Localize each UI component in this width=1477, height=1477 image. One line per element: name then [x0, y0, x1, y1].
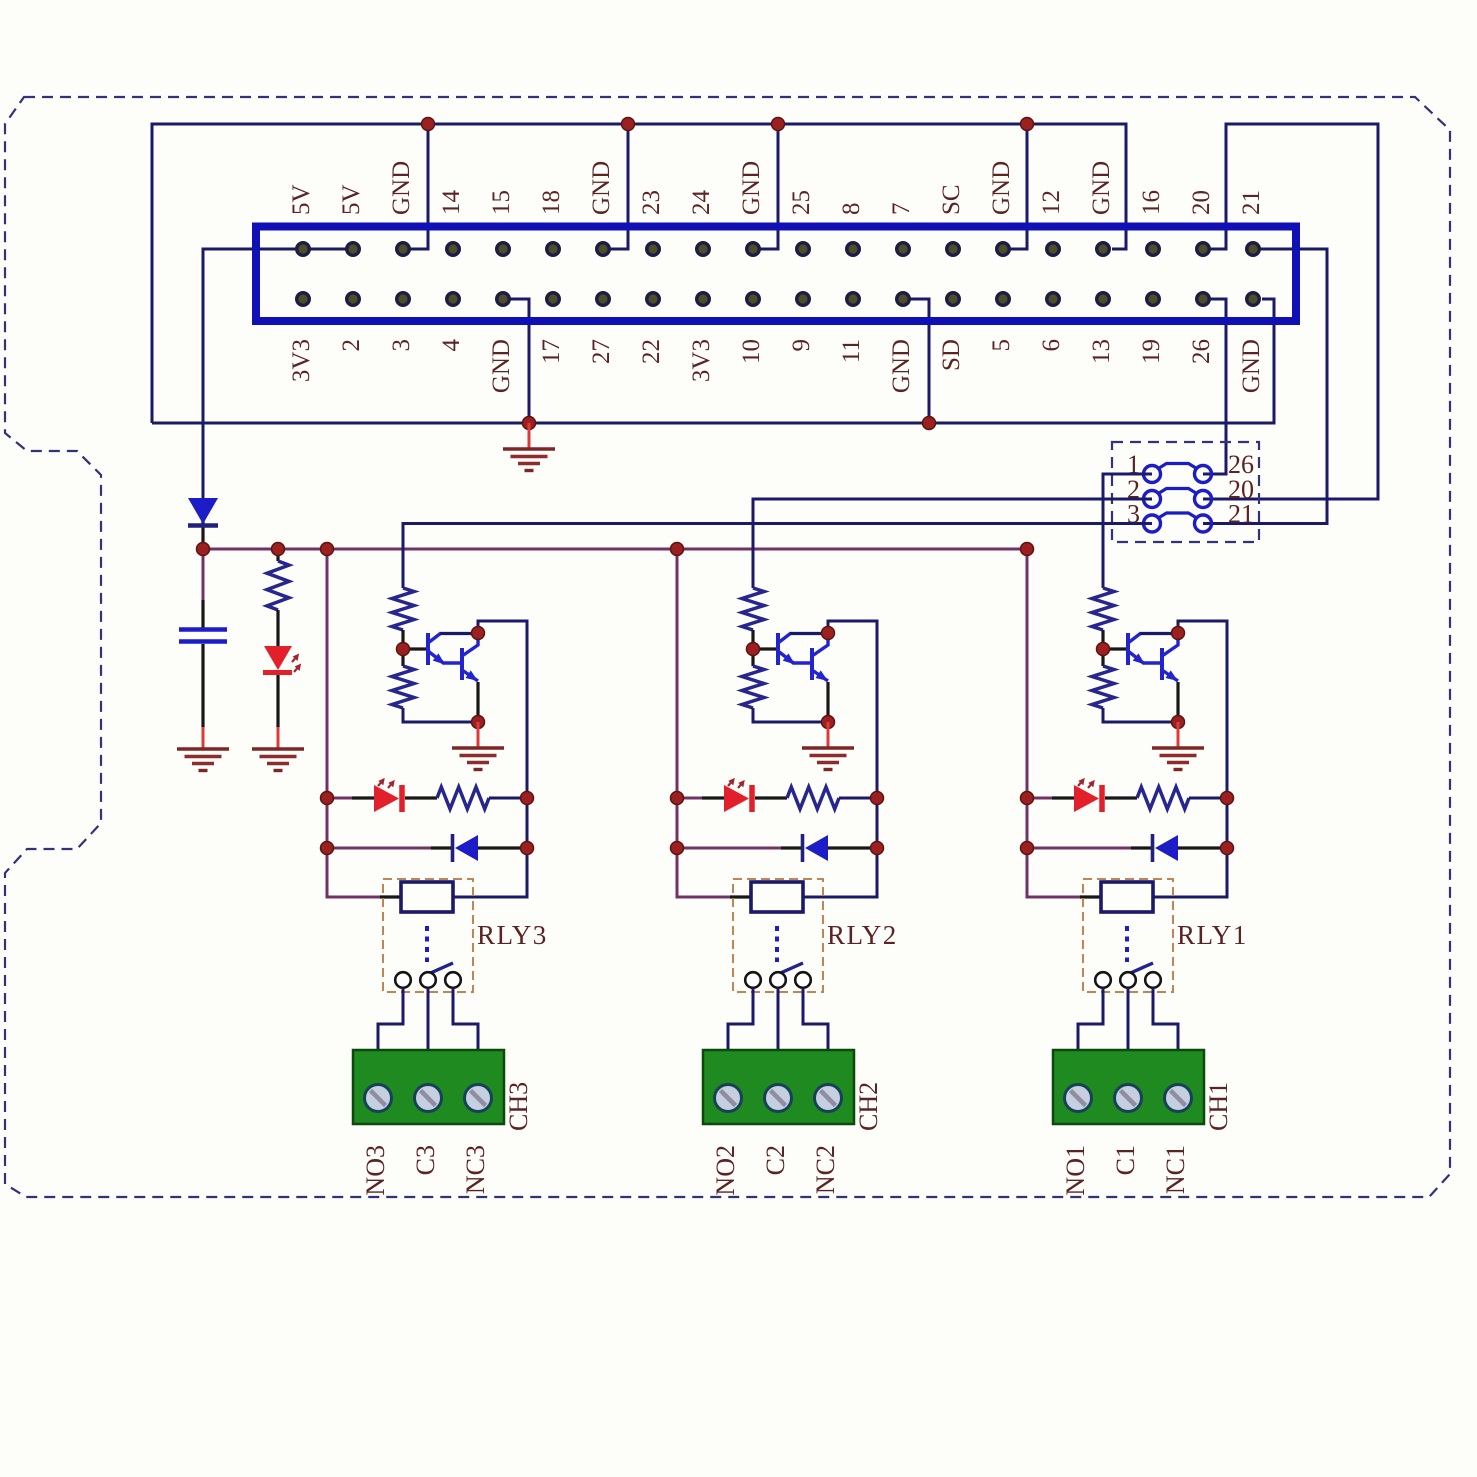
label NC1	[1161, 1145, 1190, 1194]
wire LED row left	[677, 797, 724, 800]
relay actuator link	[425, 926, 429, 962]
ground	[177, 727, 229, 771]
junction power bus	[197, 543, 1034, 556]
svg-text:NO1: NO1	[1061, 1145, 1090, 1196]
relay switch lever	[1126, 963, 1153, 975]
svg-text:SD: SD	[938, 339, 965, 371]
transistor Q3 darlington	[428, 633, 478, 681]
wire GND pin3 jog	[403, 124, 428, 249]
relay contacts	[395, 972, 461, 988]
wire diode row rail	[1226, 798, 1229, 848]
resistor R3c led	[437, 787, 489, 809]
svg-text:19: 19	[1138, 339, 1165, 364]
resistor R1	[267, 549, 289, 646]
wire coil right lead	[803, 848, 877, 897]
wire diode row left	[677, 847, 802, 850]
wire contact NO	[378, 988, 403, 1051]
relay RLY1 box	[1083, 879, 1173, 992]
diode D3F flyback	[453, 834, 528, 862]
wire collector loop	[828, 621, 877, 798]
svg-text:5V: 5V	[288, 184, 315, 215]
wire purple rail	[677, 549, 730, 897]
label RLY2	[827, 920, 898, 950]
svg-text:27: 27	[588, 339, 615, 364]
junction collector	[822, 627, 835, 640]
svg-text:6: 6	[1038, 339, 1065, 352]
label NO2	[711, 1145, 740, 1196]
wire contact NO	[728, 988, 753, 1051]
header pins top row	[297, 243, 1260, 256]
svg-text:C1: C1	[1111, 1145, 1140, 1175]
junction diode row	[1021, 842, 1234, 855]
wire LED row left	[1027, 797, 1074, 800]
wire GND pin5 bottom jog	[503, 299, 529, 423]
svg-text:21: 21	[1238, 190, 1265, 215]
svg-text:GND: GND	[888, 339, 915, 393]
wire contact NC	[1153, 988, 1178, 1051]
label RLY1	[1177, 920, 1248, 950]
resistor R1b pulldown	[1092, 649, 1114, 708]
junction collector	[472, 627, 485, 640]
header pins bottom row	[297, 293, 1260, 306]
svg-text:12: 12	[1038, 190, 1065, 215]
junction collector	[1172, 627, 1185, 640]
resistor R2c led	[787, 787, 839, 809]
wire pulldown to emitter	[1103, 708, 1178, 722]
resistor R1a base	[1092, 588, 1114, 649]
svg-text:18: 18	[538, 190, 565, 215]
resistor R3b pulldown	[392, 649, 414, 708]
svg-text:RLY1: RLY1	[1177, 920, 1248, 950]
wire collector loop	[478, 621, 527, 798]
wire GND pin15 jog	[1003, 124, 1027, 249]
junction diode row	[321, 842, 534, 855]
junction bottom bus	[523, 417, 936, 430]
resistor R2b pulldown	[742, 649, 764, 708]
wire diode row rail	[876, 798, 879, 848]
wire contact C	[777, 988, 780, 1051]
wire GND pin10 jog	[753, 124, 778, 249]
svg-text:23: 23	[638, 190, 665, 215]
pin labels bottom row	[288, 339, 1265, 394]
svg-text:13: 13	[1088, 339, 1115, 364]
ground	[1152, 722, 1204, 770]
svg-text:GND: GND	[1088, 161, 1115, 215]
svg-text:CH1: CH1	[1204, 1082, 1233, 1131]
svg-text:3V3: 3V3	[288, 339, 315, 382]
wire GND pin13 bottom jog	[903, 299, 929, 423]
jumper row 3	[1144, 513, 1212, 532]
relay RLY2 box	[733, 879, 823, 992]
resistor R1c led	[1137, 787, 1189, 809]
wire purple rail	[327, 549, 380, 897]
junction led row	[321, 792, 534, 805]
ground	[503, 423, 555, 471]
svg-text:16: 16	[1138, 190, 1165, 215]
ground	[802, 722, 854, 770]
svg-text:21: 21	[1228, 500, 1254, 529]
transistor Q2 darlington	[778, 633, 828, 681]
junction emitter	[822, 716, 835, 729]
wire contact C	[1127, 988, 1130, 1051]
wire coil left lead	[380, 895, 401, 898]
junction base node	[747, 643, 760, 656]
relay RLY3 coil	[401, 882, 453, 912]
wire purple rail	[1027, 549, 1080, 897]
svg-text:11: 11	[838, 339, 865, 363]
wire base node	[1103, 647, 1127, 650]
wire jumper row2 to RLY2 base	[753, 499, 1152, 588]
LED D3L status	[374, 778, 437, 812]
resistor R3a base	[392, 588, 414, 649]
wire emitter to ground node	[1176, 682, 1179, 722]
svg-text:NC1: NC1	[1161, 1145, 1190, 1194]
wire contact NO	[1078, 988, 1103, 1051]
jumper pin numbers right	[1228, 450, 1254, 529]
label CH2	[854, 1082, 883, 1131]
resistor R2a base	[742, 588, 764, 649]
wire contact NC	[453, 988, 478, 1051]
diode D2F flyback	[803, 834, 878, 862]
svg-text:GND: GND	[988, 161, 1015, 215]
svg-text:5: 5	[988, 339, 1015, 352]
wire GND top bus	[152, 124, 1126, 423]
wire LED row left	[327, 797, 374, 800]
wire base node	[753, 647, 777, 650]
svg-text:CH2: CH2	[854, 1082, 883, 1131]
svg-text:GND: GND	[738, 161, 765, 215]
wire pin26 to jumper	[1203, 299, 1226, 474]
wire pin21 to jumper	[1203, 249, 1327, 524]
relay RLY3 box	[383, 879, 473, 992]
label CH3	[504, 1082, 533, 1131]
wire diode row left	[327, 847, 452, 850]
svg-text:9: 9	[788, 339, 815, 352]
junction diode row	[671, 842, 884, 855]
svg-text:CH3: CH3	[504, 1082, 533, 1131]
label C3	[411, 1145, 440, 1175]
svg-text:8: 8	[838, 203, 865, 216]
jumper pin numbers left	[1127, 450, 1140, 529]
svg-text:GND: GND	[488, 339, 515, 393]
wire LED row right	[1189, 797, 1227, 800]
svg-text:RLY3: RLY3	[477, 920, 548, 950]
junction led row	[671, 792, 884, 805]
LED D2 power indicator	[263, 646, 301, 727]
terminal block CH3	[353, 1050, 504, 1124]
wire contact C	[427, 988, 430, 1051]
label C1	[1111, 1145, 1140, 1175]
jumper row 1	[1144, 464, 1212, 483]
svg-text:3V3: 3V3	[688, 339, 715, 382]
wire emitter to ground node	[826, 682, 829, 722]
wire coil right lead	[1153, 848, 1227, 897]
wire jumper row3 to RLY3 base	[403, 524, 1152, 589]
wire coil left lead	[730, 895, 751, 898]
ground	[452, 722, 504, 770]
svg-text:GND: GND	[588, 161, 615, 215]
wire collector loop	[1178, 621, 1227, 798]
wire LED row right	[839, 797, 877, 800]
junction base node	[397, 643, 410, 656]
svg-text:C3: C3	[411, 1145, 440, 1175]
wire pin20 to jumper	[1203, 124, 1378, 499]
capacitor C1	[179, 549, 227, 727]
LED D2L status	[724, 778, 787, 812]
svg-text:10: 10	[738, 339, 765, 364]
svg-text:NC2: NC2	[811, 1145, 840, 1194]
wire base node	[403, 647, 427, 650]
relay contacts	[745, 972, 811, 988]
svg-text:GND: GND	[388, 161, 415, 215]
pin labels top row	[288, 161, 1265, 215]
wire diode row left	[1027, 847, 1152, 850]
svg-text:20: 20	[1188, 190, 1215, 215]
terminal block CH1	[1053, 1050, 1204, 1124]
wire contact NC	[803, 988, 828, 1051]
svg-text:SC: SC	[938, 184, 965, 215]
svg-text:25: 25	[788, 190, 815, 215]
relay contacts	[1095, 972, 1161, 988]
wire jumper row1 to RLY1 base	[1103, 474, 1152, 588]
junction emitter	[1172, 716, 1185, 729]
wire LED row right	[489, 797, 527, 800]
svg-text:GND: GND	[1238, 339, 1265, 393]
svg-text:NO3: NO3	[361, 1145, 390, 1196]
svg-text:NC3: NC3	[461, 1145, 490, 1194]
transistor Q1 darlington	[1128, 633, 1178, 681]
wire diode row rail	[526, 798, 529, 848]
diode D1F flyback	[1153, 834, 1228, 862]
svg-text:3: 3	[388, 339, 415, 352]
svg-text:24: 24	[688, 190, 715, 216]
wire GND pin7 jog	[603, 124, 628, 249]
svg-text:5V: 5V	[338, 184, 365, 215]
power bus purple	[203, 548, 1027, 551]
label CH1	[1204, 1082, 1233, 1131]
jumper block JP1 box	[1112, 442, 1259, 542]
svg-text:NO2: NO2	[711, 1145, 740, 1196]
svg-text:26: 26	[1188, 339, 1215, 364]
jumper row 2	[1144, 489, 1212, 508]
wire 5V rail	[203, 249, 353, 504]
relay switch lever	[426, 963, 453, 975]
relay RLY2 coil	[751, 882, 803, 912]
svg-text:14: 14	[438, 190, 465, 216]
wire pulldown to emitter	[753, 708, 828, 722]
svg-text:17: 17	[538, 339, 565, 364]
label NC2	[811, 1145, 840, 1194]
label NO1	[1061, 1145, 1090, 1196]
junction base node	[1097, 643, 1110, 656]
wire coil left lead	[1080, 895, 1101, 898]
svg-text:7: 7	[888, 203, 915, 216]
wire coil right lead	[453, 848, 527, 897]
svg-text:22: 22	[638, 339, 665, 364]
wire pulldown to emitter	[403, 708, 478, 722]
relay actuator link	[775, 926, 779, 962]
junction emitter	[472, 716, 485, 729]
terminal block CH2	[703, 1050, 854, 1124]
relay RLY1 coil	[1101, 882, 1153, 912]
wire GND bottom bus	[152, 299, 1274, 423]
svg-text:4: 4	[438, 339, 465, 352]
relay switch lever	[776, 963, 803, 975]
sheet border	[5, 97, 1450, 1197]
label NC3	[461, 1145, 490, 1194]
wire emitter to ground node	[476, 682, 479, 722]
LED D1L status	[1074, 778, 1137, 812]
connector J1 2x20 header	[256, 227, 1296, 322]
svg-text:2: 2	[338, 339, 365, 352]
label RLY3	[477, 920, 548, 950]
svg-text:RLY2: RLY2	[827, 920, 898, 950]
svg-text:C2: C2	[761, 1145, 790, 1175]
relay actuator link	[1125, 926, 1129, 962]
label C2	[761, 1145, 790, 1175]
junction led row	[1021, 792, 1234, 805]
svg-text:15: 15	[488, 190, 515, 215]
ground	[252, 727, 304, 771]
label NO3	[361, 1145, 390, 1196]
junction top bus	[422, 118, 1034, 131]
diode D1	[188, 498, 218, 549]
